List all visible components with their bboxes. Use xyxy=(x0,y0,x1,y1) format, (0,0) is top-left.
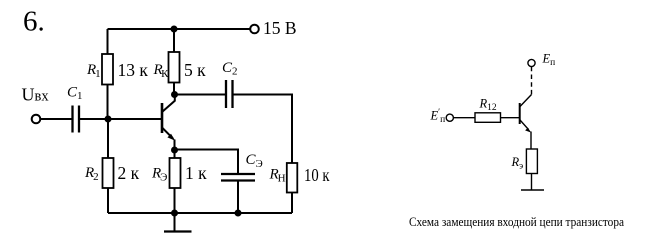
resistor R2 xyxy=(103,158,114,188)
svg-text:10 к: 10 к xyxy=(304,165,330,185)
wire R2 bottom xyxy=(107,188,109,213)
wire emitter to CE xyxy=(175,150,239,175)
terminal +15V xyxy=(250,25,259,34)
node top junction xyxy=(171,26,178,33)
wire R2 top xyxy=(107,119,109,158)
wire R1 top xyxy=(107,29,109,54)
wire RK top xyxy=(173,29,175,52)
transistor VT1 xyxy=(162,95,175,151)
resistor R12 xyxy=(475,113,501,123)
svg-text:2 к: 2 к xyxy=(118,163,140,183)
wire collector to C2 xyxy=(175,94,227,96)
svg-text:6.: 6. xyxy=(23,6,45,38)
terminal Ep xyxy=(528,59,535,66)
resistor RN xyxy=(287,163,298,193)
node CE ground xyxy=(235,210,242,217)
svg-text:15 В: 15 В xyxy=(263,18,297,38)
svg-text:Схема замещения входной цепи т: Схема замещения входной цепи транзистора xyxy=(409,215,624,229)
wire top rail xyxy=(108,28,251,30)
wire bottom rail xyxy=(108,212,292,214)
svg-text:13 к: 13 к xyxy=(118,60,149,80)
wire RK bottom xyxy=(173,83,175,95)
resistor RE xyxy=(170,158,181,188)
wire RN bottom xyxy=(291,193,293,214)
node collector xyxy=(171,91,178,98)
wire RE bottom xyxy=(174,188,176,213)
ground right xyxy=(521,189,544,191)
svg-text:5 к: 5 к xyxy=(184,60,206,80)
capacitor CE xyxy=(221,174,255,181)
ground xyxy=(164,213,192,232)
wire C2 to RN xyxy=(233,95,293,164)
wire RE top xyxy=(174,150,176,158)
capacitor C2 xyxy=(226,80,233,108)
resistor R1 xyxy=(102,54,113,85)
node emitter xyxy=(171,147,178,154)
wire Ep' to R12 xyxy=(453,117,475,119)
transistor equivalent xyxy=(520,95,532,150)
wire R1 bottom xyxy=(107,85,109,120)
resistor RE2 xyxy=(526,149,537,174)
capacitor C1 xyxy=(73,106,80,133)
wire CE bottom xyxy=(237,181,239,214)
resistor RK xyxy=(169,52,180,83)
wire R12 to base xyxy=(501,117,520,119)
wire dashed collector supply xyxy=(531,67,533,95)
terminal input xyxy=(32,115,41,124)
wire input to C1 xyxy=(40,118,72,120)
node RE ground xyxy=(171,210,178,217)
terminal Ep' xyxy=(446,114,453,121)
node base divider xyxy=(105,116,112,123)
wire emitter to RE2 xyxy=(530,148,532,150)
wire RE2 bottom xyxy=(531,174,533,191)
wire base xyxy=(79,118,162,120)
svg-text:1 к: 1 к xyxy=(185,163,207,183)
